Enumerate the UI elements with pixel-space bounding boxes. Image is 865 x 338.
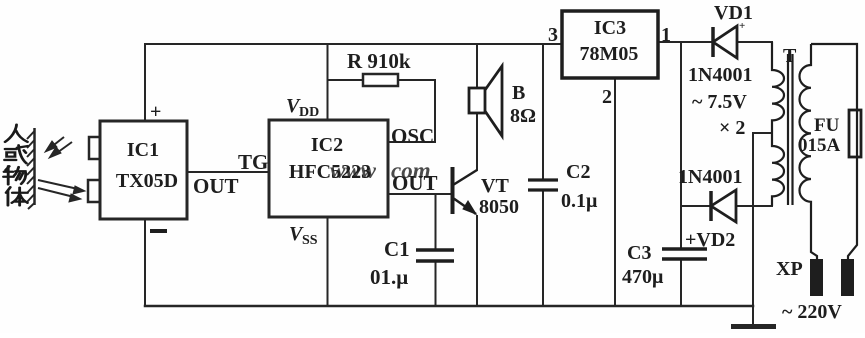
fuse FU box xyxy=(849,110,861,157)
char ren xyxy=(5,125,27,142)
svg-text:× 2: × 2 xyxy=(719,117,745,139)
svg-text:01.μ: 01.μ xyxy=(370,265,408,289)
ground xyxy=(731,324,776,329)
svg-text:~ 220V: ~ 220V xyxy=(782,301,842,323)
svg-text:SS: SS xyxy=(302,233,318,248)
svg-text:0.1μ: 0.1μ xyxy=(561,190,598,212)
capacitor C1 xyxy=(416,250,454,261)
svg-text:+VD2: +VD2 xyxy=(685,229,735,251)
wire speaker to collector xyxy=(476,113,478,170)
wire VD2 left xyxy=(681,205,710,207)
wire center tap to ground xyxy=(752,133,754,306)
svg-text:T: T xyxy=(783,45,797,67)
char ti xyxy=(6,187,27,205)
wire fuse to plug xyxy=(848,157,857,259)
svg-text:TX05D: TX05D xyxy=(116,170,178,192)
svg-text:IC3: IC3 xyxy=(594,17,626,39)
plug XP prong left xyxy=(810,259,823,296)
svg-text:~ 7.5V: ~ 7.5V xyxy=(692,91,747,113)
wire IC3 pin1 out xyxy=(658,41,711,43)
IC3 regulator box xyxy=(562,11,658,78)
svg-text:470μ: 470μ xyxy=(622,266,664,288)
capacitor C3 xyxy=(662,249,707,259)
char huo xyxy=(5,145,28,163)
IC1 minus pin label xyxy=(150,229,167,233)
wire left rail top (IC1 + lead) xyxy=(144,44,146,121)
svg-text:VD1: VD1 xyxy=(714,2,753,24)
svg-text:OSC: OSC xyxy=(391,124,434,148)
wire TG (IC1 OUT to IC2 TG) xyxy=(188,171,269,173)
label 人或物体 (person or object) xyxy=(4,125,28,206)
IC1 sensor notch top xyxy=(89,137,100,159)
transformer T secondary winding xyxy=(772,42,784,206)
speaker B driver box xyxy=(469,88,485,113)
plug XP prong right xyxy=(841,259,854,296)
svg-text:wwwcom: wwwcom xyxy=(330,158,431,183)
diode VD1 xyxy=(713,26,737,58)
wire through fuse xyxy=(856,110,858,157)
wire IC3 pin2 drop xyxy=(614,78,616,306)
wire resistor left xyxy=(328,79,364,81)
svg-text:C3: C3 xyxy=(627,242,651,264)
svg-text:IC2: IC2 xyxy=(311,134,343,156)
wire OSC vertical xyxy=(434,80,436,142)
svg-text:2: 2 xyxy=(602,86,612,108)
svg-text:+: + xyxy=(150,101,161,123)
wire top rail xyxy=(145,43,562,45)
wire VD1 to transformer xyxy=(738,41,772,43)
svg-text:B: B xyxy=(512,82,525,104)
svg-text:XP: XP xyxy=(776,258,803,280)
svg-text:8Ω: 8Ω xyxy=(510,105,536,127)
arrow reflected wave 1 xyxy=(38,180,78,189)
wall (reflecting object) xyxy=(33,128,36,205)
wire primary top to fuse xyxy=(811,44,857,110)
wire VSS drop xyxy=(327,217,329,306)
svg-text:1: 1 xyxy=(661,24,671,46)
transformer core xyxy=(788,54,793,205)
svg-text:OUT: OUT xyxy=(193,174,239,198)
svg-text:VT: VT xyxy=(481,175,509,197)
arrow emitted wave 2 xyxy=(54,142,72,155)
svg-text:1N4001: 1N4001 xyxy=(688,64,752,86)
svg-text:R 910k: R 910k xyxy=(347,49,411,73)
svg-text:TG: TG xyxy=(238,150,268,174)
diode VD2 xyxy=(711,190,736,222)
wire ground stub xyxy=(752,306,754,326)
svg-text:+: + xyxy=(739,20,745,32)
VT emitter arrow xyxy=(463,201,476,214)
svg-text:DD: DD xyxy=(299,105,319,120)
transformer T primary winding xyxy=(800,44,817,259)
wire C3 bottom xyxy=(680,259,682,306)
wire speaker top xyxy=(476,44,478,88)
resistor R 910k xyxy=(363,74,398,86)
IC1 sensor notch bottom xyxy=(88,180,100,202)
wire VD2 right to secondary bottom xyxy=(737,205,772,207)
wire emitter drop xyxy=(476,216,478,306)
wire OSC pin xyxy=(388,141,435,143)
char wu xyxy=(4,166,26,184)
wire C1 top xyxy=(435,194,437,250)
wire C1 bottom xyxy=(435,261,437,306)
wire C2 bottom xyxy=(542,190,544,306)
svg-text:3: 3 xyxy=(548,24,558,46)
svg-text:1N4001: 1N4001 xyxy=(678,166,742,188)
arrow emitted wave 1 xyxy=(38,137,85,202)
wire left rail bottom (IC1 - lead) xyxy=(144,219,146,306)
svg-text:C1: C1 xyxy=(384,237,410,261)
svg-text:8050: 8050 xyxy=(479,196,519,218)
IC2 U2 box xyxy=(269,120,388,217)
wire bottom ground rail xyxy=(145,305,753,308)
capacitor C2 xyxy=(528,180,558,190)
svg-text:015A: 015A xyxy=(798,135,841,156)
svg-text:FU: FU xyxy=(814,115,840,136)
node DC plus vertical (C3 branch) xyxy=(680,42,682,249)
wall hatch xyxy=(27,131,35,209)
wire C2 drop xyxy=(542,44,544,180)
wire center tap horizontal xyxy=(753,132,772,134)
speaker horn xyxy=(485,66,502,136)
IC1 U1 box xyxy=(100,121,187,219)
svg-text:IC1: IC1 xyxy=(127,139,159,161)
transistor Q1 VT 8050 xyxy=(453,167,478,214)
wire IC2 OUT to VT base xyxy=(388,193,451,195)
svg-text:C2: C2 xyxy=(566,161,590,183)
wire resistor right xyxy=(398,79,435,81)
wire VDD drop xyxy=(327,44,329,120)
arrow reflected wave 2 xyxy=(38,188,74,197)
svg-text:78M05: 78M05 xyxy=(580,43,639,65)
